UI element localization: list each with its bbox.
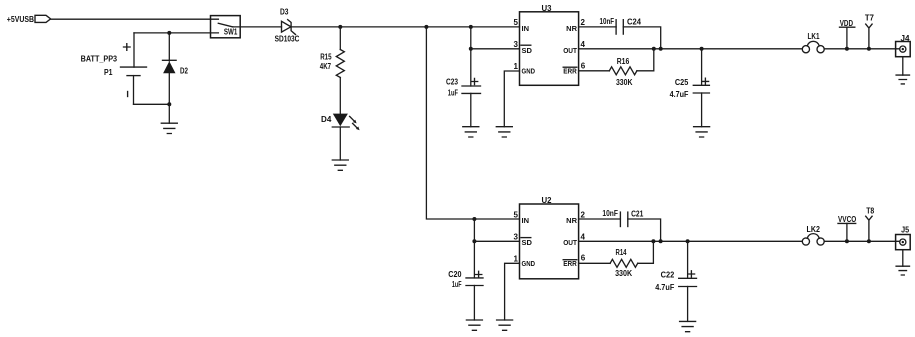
wire branch to C23	[470, 27, 472, 86]
svg-text:C24: C24	[627, 18, 642, 27]
ground J5	[896, 266, 909, 275]
link LK2	[802, 225, 824, 245]
svg-text:5: 5	[514, 18, 519, 27]
power VDD	[840, 19, 855, 49]
node R14 tap	[651, 239, 655, 243]
capacitor C22 4.7uF	[655, 241, 696, 321]
svg-text:T7: T7	[865, 13, 875, 22]
svg-text:+5VUSB: +5VUSB	[7, 15, 34, 24]
node R15 branch	[338, 25, 342, 29]
svg-text:4: 4	[581, 232, 586, 241]
svg-text:3: 3	[514, 40, 519, 49]
svg-text:NR: NR	[566, 216, 577, 225]
svg-text:10nF: 10nF	[600, 17, 615, 26]
svg-text:6: 6	[581, 254, 586, 263]
node C22 tap	[686, 239, 690, 243]
wire LK2 to J5	[824, 240, 900, 242]
svg-text:T8: T8	[866, 206, 874, 215]
wire R15 to D4	[339, 78, 341, 115]
svg-text:ERR: ERR	[563, 67, 577, 76]
wire U2 OUT rail	[579, 240, 803, 242]
ground D4	[332, 160, 348, 170]
svg-text:C21: C21	[631, 210, 644, 219]
wire D3 to U3 IN	[291, 26, 519, 28]
svg-text:6: 6	[581, 61, 586, 70]
svg-text:4K7: 4K7	[320, 62, 332, 71]
resistor R15	[320, 27, 345, 78]
svg-text:4.7uF: 4.7uF	[655, 283, 674, 292]
svg-text:GND: GND	[522, 259, 536, 268]
wire C24 to OUT rail	[623, 27, 660, 49]
power VVCO	[838, 215, 856, 241]
resistor R14 330K	[610, 248, 638, 278]
wire to ground	[168, 104, 170, 123]
svg-text:SD103C: SD103C	[275, 34, 300, 43]
svg-text:NR: NR	[566, 24, 577, 33]
node C20/SD branch	[472, 217, 476, 221]
wire branch to C20	[473, 219, 475, 278]
connector J4	[896, 34, 911, 75]
svg-text:330K: 330K	[615, 269, 632, 278]
link LK1	[802, 32, 824, 53]
svg-text:SD: SD	[522, 238, 533, 247]
svg-text:4.7uF: 4.7uF	[670, 90, 689, 99]
node SD tap U3	[469, 47, 473, 51]
svg-text:IN: IN	[522, 216, 530, 225]
wire U2 NR to C21	[579, 218, 621, 220]
node R16 tap	[652, 47, 656, 51]
capacitor C21 10nF	[602, 209, 643, 227]
test point T7	[865, 13, 875, 48]
wire D4 to ground	[339, 127, 341, 160]
ground C22	[680, 321, 696, 331]
capacitor C25 4.7uF	[670, 49, 710, 127]
svg-text:2: 2	[581, 210, 586, 219]
ground U2	[497, 320, 513, 330]
resistor R16 330K	[609, 57, 637, 87]
svg-text:BATT_PP3: BATT_PP3	[81, 55, 118, 64]
wire U3 GND to ground	[504, 71, 519, 127]
ground J4	[896, 75, 909, 84]
diode D3	[275, 8, 300, 44]
svg-text:J5: J5	[901, 226, 909, 235]
wire +5VUSB to SW1	[51, 18, 219, 20]
test point T8	[866, 206, 875, 241]
node battery top junction	[167, 31, 171, 35]
connector J5	[896, 226, 911, 267]
svg-text:4: 4	[581, 40, 586, 49]
node U2 feed branch	[424, 25, 428, 29]
svg-text:2: 2	[581, 18, 586, 27]
wire R14 up to OUT	[638, 241, 654, 263]
wire U2 GND to ground	[505, 263, 520, 320]
svg-text:1uF: 1uF	[452, 280, 462, 289]
ground U3	[496, 127, 512, 137]
net label +5VUSB	[7, 15, 51, 24]
svg-text:C23: C23	[446, 78, 458, 87]
op-amp U3 regulator	[514, 4, 586, 85]
svg-text:330K: 330K	[616, 78, 633, 87]
svg-text:LK2: LK2	[807, 225, 821, 234]
node T8 tap	[867, 239, 871, 243]
svg-text:SD: SD	[522, 46, 533, 55]
node SD tap U2	[472, 239, 476, 243]
wire R16 up to OUT	[637, 49, 654, 71]
wire U3 NR to C24	[579, 26, 617, 28]
ground C20	[466, 320, 482, 330]
wire U2 ERR to R14	[579, 262, 611, 264]
svg-text:3: 3	[514, 232, 519, 241]
diode D2	[163, 33, 189, 104]
svg-text:OUT: OUT	[563, 46, 577, 55]
ground C23	[463, 127, 479, 137]
node VVCO tap	[845, 239, 849, 243]
wire SW1 output to D3	[233, 26, 282, 28]
battery P1 BATT_PP3	[81, 33, 170, 104]
wire down to U2 IN	[426, 27, 519, 219]
capacitor C24 10nF	[600, 17, 642, 34]
svg-text:C22: C22	[661, 271, 675, 280]
wire SD to U3	[471, 48, 520, 50]
node battery bottom junction	[167, 102, 171, 106]
svg-text:1uF: 1uF	[448, 89, 458, 98]
svg-text:IN: IN	[522, 24, 530, 33]
capacitor C23 1uF	[446, 78, 481, 127]
LED D4	[321, 114, 360, 131]
capacitor C20 1uF	[448, 270, 483, 320]
ground battery	[161, 123, 177, 133]
wire U3 ERR to R16	[579, 70, 610, 72]
svg-text:ERR: ERR	[563, 259, 577, 268]
svg-text:LK1: LK1	[808, 32, 820, 41]
wire U3 OUT rail	[579, 48, 803, 50]
switch SW1	[134, 16, 240, 38]
svg-text:10nF: 10nF	[602, 209, 618, 218]
ground C25	[694, 127, 710, 137]
svg-text:R16: R16	[617, 57, 630, 66]
svg-text:D4: D4	[321, 115, 332, 124]
node C23/SD branch	[469, 25, 473, 29]
svg-text:R14: R14	[616, 248, 627, 257]
wire SD to U2	[474, 240, 519, 242]
svg-text:1: 1	[514, 254, 519, 263]
node VDD tap	[845, 47, 849, 51]
svg-text:C20: C20	[448, 270, 462, 279]
svg-text:D3: D3	[280, 8, 289, 17]
svg-text:D2: D2	[180, 67, 188, 76]
svg-text:P1: P1	[104, 68, 113, 77]
svg-text:GND: GND	[522, 67, 536, 76]
svg-text:SW1: SW1	[224, 28, 238, 37]
wire C21 to OUT rail	[628, 219, 661, 241]
op-amp U2 regulator	[514, 196, 586, 279]
svg-text:C25: C25	[675, 78, 689, 87]
svg-text:R15: R15	[320, 52, 332, 61]
svg-text:1: 1	[514, 62, 519, 71]
node T7 tap	[867, 47, 871, 51]
node C24 tap	[659, 47, 663, 51]
node C21 tap	[659, 239, 663, 243]
node C25 tap	[700, 47, 704, 51]
svg-text:OUT: OUT	[563, 238, 577, 247]
wire LK1 to J4	[824, 48, 900, 50]
svg-text:5: 5	[514, 210, 519, 219]
